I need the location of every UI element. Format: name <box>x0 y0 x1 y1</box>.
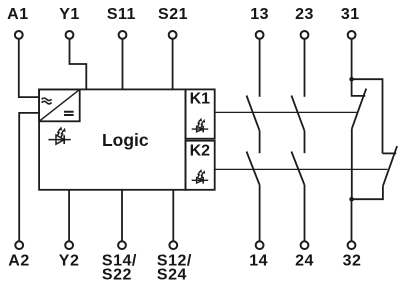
K1 actuation line <box>215 111 357 113</box>
wire contact K1 down to node 32 <box>351 129 353 200</box>
logic box <box>39 89 185 189</box>
terminal 31 <box>348 31 356 39</box>
svg-text:24: 24 <box>295 253 314 270</box>
wire Y2 from logic box <box>68 190 70 241</box>
terminal 14 <box>256 241 264 249</box>
relay K1 box <box>186 89 215 138</box>
contact 13 K1 blade (NO) <box>247 96 260 131</box>
terminal S14/S22 <box>118 241 126 249</box>
svg-text:K2: K2 <box>190 142 211 159</box>
wire contact K2 down to node 32 <box>352 186 383 199</box>
svg-text:Logic: Logic <box>102 130 149 150</box>
wire terminal 23 to contact <box>304 39 306 97</box>
wire A1 to logic box <box>19 39 39 97</box>
contact 13 K2 blade (NO) <box>247 152 260 185</box>
wire contact to terminal 14 <box>259 185 261 242</box>
terminal S12/S24 <box>169 241 177 249</box>
svg-text:32: 32 <box>343 253 362 270</box>
node 32 junction <box>349 197 354 202</box>
svg-text:S11: S11 <box>107 6 136 23</box>
wire contact to terminal 24 <box>304 185 306 242</box>
svg-text:A1: A1 <box>7 6 28 23</box>
wire node to terminal 32 <box>351 199 353 241</box>
svg-text:23: 23 <box>295 6 314 23</box>
power supply unit <box>39 89 80 121</box>
LED indicator logic <box>48 126 70 144</box>
wire terminal 31 down <box>351 39 353 79</box>
wire S14/S22 from logic box <box>121 190 123 241</box>
svg-text:S24: S24 <box>157 267 187 284</box>
svg-text:31: 31 <box>341 6 360 23</box>
wire between contacts 23-24 <box>304 130 306 153</box>
K2 actuation line <box>215 168 388 170</box>
svg-text:13: 13 <box>250 6 269 23</box>
svg-text:K1: K1 <box>190 90 211 107</box>
contact 31 K1 blade (NC) <box>352 89 366 129</box>
terminal 32 <box>348 241 356 249</box>
svg-text:A2: A2 <box>8 253 29 270</box>
svg-text:Y1: Y1 <box>59 6 80 23</box>
contact 31 K2 fixed bar (NC) <box>383 152 397 154</box>
AC symbol <box>42 98 52 104</box>
wire S21 to logic box <box>172 39 174 89</box>
wire Y1 to logic box <box>70 39 87 89</box>
terminal S11 <box>119 31 127 39</box>
power supply diagonal <box>39 89 80 121</box>
terminal 24 <box>301 241 309 249</box>
contact 31 K2 blade (NC) <box>383 146 397 186</box>
relay K2 box <box>186 141 215 190</box>
contact 23 K2 blade (NO) <box>291 152 304 185</box>
node 31 junction <box>349 77 354 82</box>
LED indicator K2 <box>192 169 209 184</box>
terminal Y2 <box>65 241 73 249</box>
svg-text:S21: S21 <box>158 6 188 23</box>
contact 23 K1 blade (NO) <box>291 96 304 131</box>
terminal A1 <box>15 31 23 39</box>
LED indicator K1 <box>192 118 209 133</box>
wire terminal 13 to contact <box>259 39 261 97</box>
wire A2 to logic box <box>19 113 39 241</box>
terminal S21 <box>169 31 177 39</box>
svg-text:S22: S22 <box>102 267 132 284</box>
terminal Y1 <box>66 31 74 39</box>
svg-text:14: 14 <box>249 253 268 270</box>
terminal 13 <box>256 31 264 39</box>
wire 31 branch to K2 contact <box>352 79 383 153</box>
terminal A2 <box>15 241 23 249</box>
svg-text:Y2: Y2 <box>59 253 80 270</box>
wire S11 to logic box <box>122 39 124 89</box>
contact 31 K1 fixed bar (NC) <box>352 79 366 96</box>
DC symbol <box>64 112 74 115</box>
wire between contacts 13-14 <box>259 130 261 153</box>
terminal 23 <box>301 31 309 39</box>
wire S12/S24 from logic box <box>172 190 174 241</box>
